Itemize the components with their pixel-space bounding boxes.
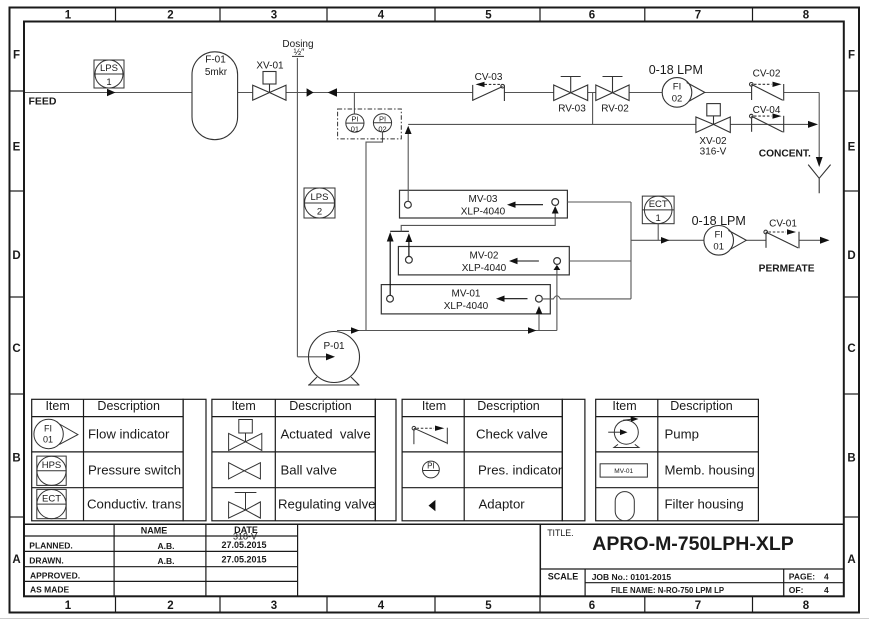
svg-text:PI: PI — [427, 462, 435, 471]
svg-text:01: 01 — [713, 242, 724, 253]
legend table 3 grid — [402, 399, 585, 521]
svg-text:Adaptor: Adaptor — [479, 497, 526, 512]
svg-text:F: F — [848, 50, 855, 62]
svg-text:PLANNED.: PLANNED. — [29, 540, 72, 550]
wire pump suction horizontal — [297, 356, 327, 358]
adaptor left — [328, 88, 337, 96]
svg-text:5: 5 — [485, 10, 492, 22]
wire bracket joining left risers — [390, 230, 409, 232]
check valve CV-02 — [750, 83, 784, 101]
svg-text:C: C — [847, 343, 855, 355]
check valve CV-01 — [764, 230, 799, 248]
wire MV-01 left riser — [389, 241, 391, 296]
svg-text:XV-01: XV-01 — [256, 61, 284, 72]
svg-text:0-18 LPM: 0-18 LPM — [649, 63, 703, 77]
faint page bottom line — [0, 618, 869, 620]
svg-text:CV-04: CV-04 — [753, 105, 781, 116]
svg-text:LPS: LPS — [100, 63, 118, 74]
svg-text:PERMEATE: PERMEATE — [759, 264, 815, 275]
title block grid — [540, 569, 844, 596]
approval table grid — [24, 524, 298, 596]
flow indicator FI-01 — [704, 226, 746, 256]
wire concentrate line — [408, 93, 808, 125]
wire permeate outlet arrow — [820, 237, 830, 244]
legend icon pressure switch HPS — [37, 456, 66, 485]
instrument LPS2 — [304, 188, 335, 218]
legend table 1 grid — [32, 399, 206, 521]
legend icon filter housing — [615, 492, 634, 521]
svg-text:PAGE:: PAGE: — [789, 572, 815, 582]
svg-text:P-01: P-01 — [323, 341, 345, 352]
svg-text:1: 1 — [106, 77, 111, 88]
svg-text:C: C — [12, 343, 20, 355]
svg-text:D: D — [12, 250, 20, 262]
valve XV-01 actuated — [253, 72, 286, 101]
svg-text:CV-03: CV-03 — [475, 72, 503, 83]
grid band letters right — [847, 50, 855, 567]
drain symbol concentrate — [816, 157, 823, 167]
legend icon pump — [608, 419, 639, 447]
legend icon regulating valve — [229, 493, 261, 519]
svg-text:Pres. indicator: Pres. indicator — [478, 463, 563, 478]
svg-text:3: 3 — [271, 10, 277, 22]
legend icon flow indicator — [34, 419, 78, 448]
svg-text:½″: ½″ — [294, 47, 306, 57]
legend icon actuated valve — [229, 420, 262, 451]
svg-text:4: 4 — [824, 572, 829, 582]
svg-text:HPS: HPS — [42, 460, 62, 471]
svg-text:Description: Description — [670, 399, 733, 413]
svg-text:4: 4 — [378, 10, 385, 22]
pressure indicator PI-02 — [373, 114, 391, 132]
conductivity transmitter ECT — [642, 196, 674, 224]
wire feed line — [25, 93, 819, 159]
grid band numbers bottom — [65, 600, 810, 612]
svg-text:MV-01: MV-01 — [452, 289, 481, 300]
svg-text:1: 1 — [656, 213, 661, 224]
svg-text:AS MADE: AS MADE — [30, 585, 70, 595]
svg-text:7: 7 — [695, 600, 701, 612]
legend icon membrane housing — [600, 464, 647, 477]
svg-text:FEED: FEED — [29, 96, 57, 108]
legend icon ball valve — [229, 463, 261, 479]
wire concentrate arrow into drain — [808, 121, 818, 128]
svg-text:APPROVED.: APPROVED. — [30, 570, 80, 580]
svg-text:1: 1 — [65, 600, 72, 612]
wire PI-01 tap — [353, 93, 355, 115]
svg-text:4: 4 — [378, 600, 385, 612]
svg-text:Flow indicator: Flow indicator — [88, 427, 170, 442]
wire MV-02 left riser — [408, 241, 410, 256]
svg-text:2: 2 — [167, 600, 173, 612]
svg-text:Pressure switch: Pressure switch — [88, 463, 181, 478]
svg-text:1: 1 — [65, 10, 72, 22]
svg-text:02: 02 — [672, 94, 683, 105]
svg-text:27.05.2015: 27.05.2015 — [221, 555, 266, 565]
check valve CV-03 — [473, 84, 505, 101]
svg-text:NAME: NAME — [141, 526, 168, 536]
svg-text:OF:: OF: — [789, 585, 804, 595]
svg-text:APRO-M-750LPH-XLP: APRO-M-750LPH-XLP — [592, 533, 794, 555]
wire permeate collector bus — [543, 202, 631, 299]
legend icon conductivity ECT — [37, 489, 66, 518]
svg-text:Description: Description — [289, 399, 352, 413]
title strip top line — [24, 523, 844, 525]
svg-text:XLP-4040: XLP-4040 — [444, 301, 489, 312]
svg-text:Actuated valve: Actuated valve — [281, 427, 371, 442]
svg-text:MV-03: MV-03 — [469, 194, 498, 205]
wire discharge flow arrows — [351, 327, 360, 334]
pump P-01 — [308, 332, 360, 386]
svg-text:Ball valve: Ball valve — [281, 463, 337, 478]
svg-text:SCALE: SCALE — [548, 572, 579, 582]
svg-text:0-18 LPM: 0-18 LPM — [692, 214, 746, 228]
svg-text:27.05.2015: 27.05.2015 — [221, 540, 266, 550]
svg-text:Filter housing: Filter housing — [665, 497, 744, 512]
wire feed flow arrow — [107, 89, 116, 96]
svg-text:XLP-4040: XLP-4040 — [461, 207, 506, 218]
wire bracket to MV-03 right feed — [401, 214, 555, 232]
svg-text:FI: FI — [714, 230, 722, 241]
svg-text:01: 01 — [43, 435, 53, 445]
svg-text:ECT: ECT — [42, 493, 61, 504]
svg-text:5mkr: 5mkr — [205, 67, 228, 78]
legend table 4 grid — [596, 399, 759, 521]
svg-text:Conductiv. trans: Conductiv. trans — [87, 497, 182, 512]
svg-text:FI: FI — [673, 82, 681, 93]
svg-text:B: B — [12, 453, 20, 465]
svg-text:PI: PI — [379, 114, 386, 123]
instrument group dashed box — [338, 109, 402, 139]
svg-text:RV-02: RV-02 — [601, 104, 629, 115]
svg-text:2: 2 — [317, 207, 322, 218]
valve XV-02 actuated — [696, 104, 730, 133]
svg-text:FI: FI — [44, 424, 52, 434]
grid band letters left — [12, 50, 20, 567]
svg-text:A: A — [12, 554, 20, 566]
svg-text:Pump: Pump — [665, 427, 699, 442]
wire permeate line — [631, 239, 822, 241]
svg-text:4: 4 — [824, 585, 829, 595]
svg-text:Item: Item — [422, 399, 446, 413]
svg-text:DRAWN.: DRAWN. — [29, 555, 63, 565]
svg-text:D: D — [847, 250, 855, 262]
svg-text:A.B.: A.B. — [158, 556, 175, 566]
svg-text:A.B.: A.B. — [158, 541, 175, 551]
legend table 2 grid — [212, 399, 396, 521]
wire MV-03 left port riser to concentrate line — [407, 133, 409, 201]
svg-text:ECT: ECT — [649, 199, 668, 210]
adaptor right — [307, 88, 314, 96]
svg-text:FILE NAME: N-RO-750 LPM LP: FILE NAME: N-RO-750 LPM LP — [611, 586, 724, 595]
svg-text:8: 8 — [803, 10, 810, 22]
membrane housing MV-02 — [398, 247, 569, 275]
svg-text:8: 8 — [803, 600, 810, 612]
svg-text:JOB No.: 0101-2015: JOB No.: 0101-2015 — [592, 572, 672, 582]
svg-text:A: A — [847, 554, 855, 566]
svg-text:6: 6 — [589, 600, 595, 612]
svg-text:3: 3 — [271, 600, 277, 612]
svg-text:E: E — [848, 142, 856, 154]
svg-text:RV-03: RV-03 — [558, 104, 586, 115]
svg-text:6: 6 — [589, 10, 595, 22]
svg-text:XLP-4040: XLP-4040 — [462, 263, 507, 274]
svg-text:E: E — [13, 142, 21, 154]
svg-text:Description: Description — [97, 399, 160, 413]
svg-text:Description: Description — [477, 399, 540, 413]
grid band numbers top — [65, 10, 810, 22]
svg-text:PI: PI — [351, 115, 358, 124]
svg-text:B: B — [847, 453, 855, 465]
svg-text:Memb. housing: Memb. housing — [665, 463, 755, 478]
regulating valve RV-02 — [596, 77, 629, 101]
svg-text:CONCENT.: CONCENT. — [759, 149, 811, 160]
check valve CV-04 — [750, 114, 784, 132]
wire pump discharge line — [337, 330, 557, 332]
svg-text:Item: Item — [612, 399, 636, 413]
svg-text:01: 01 — [351, 125, 359, 134]
wire pump suction arrow — [326, 353, 335, 360]
pressure indicator PI-01 — [346, 114, 364, 132]
instrument LPS1 — [94, 60, 124, 88]
wire dosing / pump suction vertical — [296, 58, 298, 357]
svg-text:7: 7 — [695, 10, 701, 22]
svg-text:LPS: LPS — [311, 192, 329, 203]
svg-text:2: 2 — [167, 10, 173, 22]
legend icon adaptor — [429, 500, 436, 511]
svg-text:XV-02: XV-02 — [699, 136, 727, 147]
svg-text:Item: Item — [231, 399, 255, 413]
svg-text:316-V: 316-V — [700, 147, 727, 158]
svg-text:F: F — [13, 50, 20, 62]
title block middle empty box divider — [539, 524, 541, 596]
svg-text:02: 02 — [378, 124, 386, 133]
svg-text:MV-01: MV-01 — [614, 468, 633, 475]
filter housing F-01 — [192, 52, 238, 140]
legend icon pressure indicator — [423, 461, 440, 478]
membrane housing MV-03 — [400, 190, 568, 218]
wire ECT tap — [657, 224, 659, 241]
svg-text:Item: Item — [45, 399, 69, 413]
svg-text:Check valve: Check valve — [476, 427, 548, 442]
membrane housing MV-01 — [381, 285, 550, 314]
svg-text:CV-01: CV-01 — [769, 219, 797, 230]
svg-text:TITLE.: TITLE. — [547, 528, 573, 538]
svg-text:5: 5 — [485, 600, 492, 612]
svg-text:F-01: F-01 — [205, 55, 226, 66]
svg-text:MV-02: MV-02 — [470, 251, 499, 262]
legend icon check valve — [412, 426, 447, 444]
svg-text:Regulating valve: Regulating valve — [278, 497, 376, 512]
regulating valve RV-03 — [554, 77, 588, 101]
wire PI-02 tap dogleg — [366, 132, 383, 331]
svg-text:CV-02: CV-02 — [753, 69, 781, 80]
flow indicator FI-02 — [662, 78, 705, 108]
wire pump discharge risers to MV-01 MV-02 — [538, 314, 540, 331]
